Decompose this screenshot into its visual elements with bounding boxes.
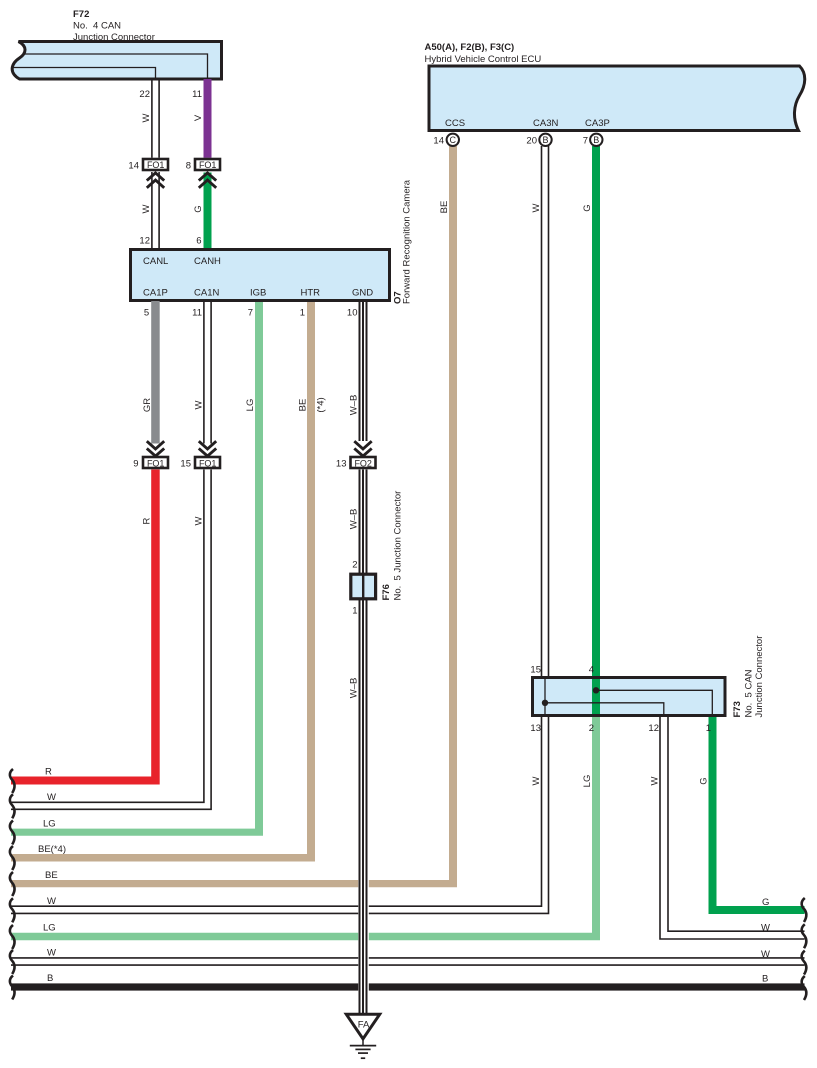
svg-text:FO1: FO1 [199, 458, 217, 468]
break squiggle W right [802, 951, 807, 975]
svg-text:Junction Connector: Junction Connector [73, 32, 155, 43]
wire LG from F73 pin 2 down and left to edge [11, 717, 600, 940]
svg-text:CANH: CANH [194, 256, 221, 267]
svg-text:Hybrid Vehicle Control ECU: Hybrid Vehicle Control ECU [425, 54, 542, 65]
svg-text:V: V [193, 114, 204, 121]
break squiggle LG left [10, 925, 15, 949]
svg-text:LG: LG [245, 399, 256, 412]
break squiggle LG left [10, 821, 15, 845]
F73 junction dot on pin 4 line [593, 687, 599, 693]
ECU pin 20 circle B [539, 134, 551, 146]
svg-text:5: 5 [144, 308, 149, 319]
wire W from FO1 to camera pin 12 [152, 172, 159, 250]
junction connector F73 body [533, 678, 726, 716]
svg-text:W: W [47, 948, 56, 959]
svg-text:No. 5 CAN: No. 5 CAN [744, 669, 755, 717]
chevron arrows above FO1 9 [147, 441, 164, 456]
connector FO1 pin 15 box [195, 457, 220, 468]
svg-text:BE: BE [45, 870, 58, 881]
svg-text:W: W [194, 516, 205, 525]
svg-text:F73: F73 [732, 701, 743, 717]
ECU pin 7 circle B [590, 134, 602, 146]
svg-text:G: G [193, 205, 204, 212]
svg-text:B: B [593, 135, 599, 145]
svg-text:W: W [141, 204, 152, 213]
svg-text:LG: LG [582, 775, 593, 788]
svg-text:1: 1 [352, 606, 357, 617]
break squiggle W left [10, 898, 15, 922]
break squiggle B right [802, 976, 807, 1000]
wire G through F73 [592, 677, 600, 717]
svg-text:1: 1 [300, 308, 305, 319]
connector FO1 pin 14 box [143, 159, 168, 170]
wire W-B from connector FO2 through F76 down to ground FA [360, 470, 367, 1015]
svg-text:HTR: HTR [301, 288, 321, 299]
F73 border [533, 678, 726, 716]
wire W from F72 pin 22 to FO1 [152, 79, 159, 158]
wire W from connector FO1 pin 15 down and left to edge [11, 470, 211, 810]
svg-text:B: B [47, 973, 53, 984]
break squiggle W left [10, 950, 15, 974]
wire LG from camera pin 7 IGB down and left to edge [11, 301, 263, 836]
svg-text:14: 14 [433, 136, 444, 147]
wire GR from camera pin 5 to FO1 [151, 301, 160, 444]
svg-text:G: G [582, 204, 593, 211]
svg-text:1: 1 [706, 723, 711, 734]
F73 junction dot on pin 13 line [542, 700, 548, 706]
wire G from FO1 to camera pin 6 [204, 173, 212, 250]
svg-text:No. 4 CAN: No. 4 CAN [73, 21, 121, 32]
svg-text:F72: F72 [73, 9, 89, 20]
svg-text:14: 14 [128, 161, 139, 172]
svg-text:CA3N: CA3N [533, 118, 558, 129]
chevron arrows below FO1 14 [147, 173, 164, 188]
ECU pin 14 circle C [447, 134, 459, 146]
svg-text:Forward Recognition Camera: Forward Recognition Camera [402, 179, 413, 304]
svg-text:Junction Connector: Junction Connector [754, 636, 765, 718]
wire G from ECU pin 7 CA3P to F73 pin 4 [592, 146, 600, 678]
svg-text:W: W [141, 113, 152, 122]
svg-text:LG: LG [43, 819, 56, 830]
wire W-B from camera pin 10 GND to connector FO2 [360, 301, 367, 441]
ground stem [362, 1039, 364, 1046]
svg-text:W: W [47, 792, 56, 803]
svg-text:G: G [699, 777, 710, 784]
chevron arrows above FO1 15 [199, 441, 216, 456]
white clearance where wire W-B crosses horizontal wires [358, 770, 369, 1010]
connector FO1 pin 8 box [195, 159, 220, 170]
break squiggle W right [802, 924, 807, 948]
wire W full width at bottom [11, 958, 805, 965]
svg-text:(*4): (*4) [316, 397, 327, 412]
svg-text:IGB: IGB [250, 288, 266, 299]
svg-text:FO1: FO1 [147, 458, 165, 468]
svg-text:4: 4 [589, 665, 594, 676]
svg-text:R: R [45, 767, 52, 778]
forward recognition camera O7 box [131, 250, 390, 301]
svg-text:11: 11 [192, 89, 202, 100]
svg-text:7: 7 [583, 136, 588, 147]
svg-text:8: 8 [186, 161, 191, 172]
svg-text:BE(*4): BE(*4) [38, 844, 66, 855]
svg-text:12: 12 [139, 236, 150, 247]
wire V from F72 pin 11 to FO1 [204, 79, 212, 158]
svg-text:W: W [194, 400, 205, 409]
hybrid vehicle control ECU box [429, 66, 805, 131]
svg-text:W: W [531, 776, 542, 785]
svg-text:W: W [47, 896, 56, 907]
svg-text:W: W [531, 203, 542, 212]
svg-text:20: 20 [526, 136, 537, 147]
svg-text:FO1: FO1 [199, 160, 217, 170]
svg-text:13: 13 [336, 459, 347, 470]
svg-text:CANL: CANL [143, 256, 168, 267]
svg-text:G: G [762, 897, 769, 908]
svg-text:W–B: W–B [349, 678, 360, 699]
svg-text:2: 2 [352, 560, 357, 571]
break squiggle B left [10, 976, 15, 1000]
svg-text:9: 9 [133, 459, 138, 470]
connector FO1 pin 9 box [143, 457, 168, 468]
svg-text:FO2: FO2 [354, 458, 372, 468]
svg-text:CCS: CCS [445, 118, 465, 129]
svg-text:7: 7 [248, 308, 253, 319]
wire W from ECU pin 20 CA3N to F73 pin 15 [542, 146, 549, 677]
svg-text:15: 15 [530, 665, 541, 676]
wire B full width at bottom [11, 983, 805, 990]
wire BE from ECU pin 14 CCS (upper stub) [449, 146, 457, 156]
wire W from F73 pin 13 down and left to edge [11, 717, 549, 913]
svg-text:GND: GND [352, 288, 373, 299]
svg-text:C: C [450, 135, 457, 145]
svg-text:CA3P: CA3P [585, 118, 610, 129]
svg-text:CA1N: CA1N [194, 288, 219, 299]
svg-text:F76: F76 [381, 584, 392, 600]
junction connector F76 box [351, 574, 376, 599]
break squiggle BE left [10, 872, 15, 896]
svg-text:22: 22 [139, 89, 150, 100]
junction connector F72 body [12, 42, 221, 80]
svg-text:W–B: W–B [349, 509, 360, 530]
svg-text:12: 12 [648, 723, 659, 734]
svg-text:A50(A), F2(B), F3(C): A50(A), F2(B), F3(C) [425, 42, 515, 53]
F76 divider [362, 575, 364, 599]
svg-text:6: 6 [196, 236, 201, 247]
connector FO2 pin 13 box [351, 457, 376, 468]
break squiggle G right [802, 898, 807, 922]
svg-text:13: 13 [530, 723, 541, 734]
ground FA triangle [346, 1014, 379, 1039]
F72 border [12, 42, 221, 80]
chevron arrows above FO2 13 [354, 441, 371, 456]
svg-text:15: 15 [180, 459, 191, 470]
break squiggle R left [10, 769, 15, 793]
F72 internal bus to pin 11 [13, 54, 208, 78]
break squiggle BE(*4) left [10, 846, 15, 870]
svg-text:B: B [542, 135, 548, 145]
svg-text:2: 2 [589, 723, 594, 734]
F73 internal wire from pin 15 to pin 13 with branch to pin 12 [545, 678, 664, 716]
svg-text:GR: GR [142, 398, 153, 412]
svg-text:11: 11 [192, 308, 202, 319]
svg-text:W: W [761, 923, 770, 934]
chevron arrows below FO1 8 [199, 173, 216, 188]
svg-text:10: 10 [347, 308, 358, 319]
svg-text:FO1: FO1 [147, 160, 165, 170]
wire R (red) from connector FO1 pin 9 down and left to edge [11, 470, 160, 785]
svg-text:B: B [762, 974, 768, 985]
svg-text:W: W [650, 776, 661, 785]
svg-text:No. 5 Junction Connector: No. 5 Junction Connector [393, 491, 404, 601]
svg-text:LG: LG [43, 923, 56, 934]
svg-text:W: W [761, 949, 770, 960]
svg-text:BE: BE [298, 399, 309, 412]
ground bars [350, 1046, 376, 1059]
svg-text:CA1P: CA1P [143, 288, 168, 299]
wire BE from ECU pin 14 CCS down and left to edge [11, 146, 457, 887]
svg-text:FA: FA [358, 1020, 370, 1031]
wire W from camera pin 11 to FO1 [204, 301, 211, 444]
svg-text:R: R [142, 517, 153, 524]
F73 internal wire branch from pin 4 line to pin 1 [596, 690, 712, 715]
svg-text:BE: BE [439, 201, 450, 214]
wire BE(*4) from camera pin 1 HTR down and left to edge [11, 301, 315, 862]
wire W from F73 pin 12 down and right to edge [660, 717, 805, 939]
svg-text:W–B: W–B [349, 395, 360, 416]
break squiggle W left [10, 794, 15, 818]
wire G from F73 pin 1 down and right to edge [709, 717, 805, 914]
